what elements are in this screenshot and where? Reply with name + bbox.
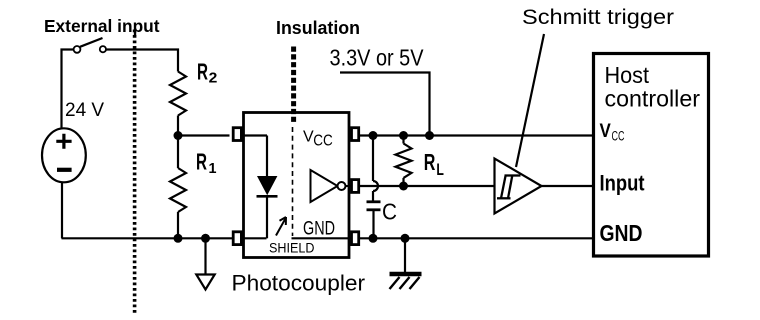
- svg-text:2: 2: [209, 69, 218, 86]
- svg-text:CC: CC: [612, 128, 625, 143]
- svg-text:R: R: [424, 149, 436, 175]
- svg-text:controller: controller: [605, 86, 701, 112]
- svg-text:24 V: 24 V: [65, 100, 104, 121]
- svg-text:Input: Input: [600, 171, 646, 196]
- svg-text:Photocoupler: Photocoupler: [232, 271, 366, 296]
- svg-text:L: L: [436, 160, 444, 179]
- svg-text:CC: CC: [313, 133, 333, 150]
- svg-text:R: R: [196, 149, 207, 175]
- svg-text:Insulation: Insulation: [276, 18, 360, 38]
- svg-text:R: R: [197, 59, 208, 85]
- svg-text:1: 1: [209, 160, 217, 177]
- svg-text:C: C: [382, 198, 397, 224]
- svg-text:V: V: [600, 121, 612, 142]
- svg-text:3.3V or 5V: 3.3V or 5V: [330, 45, 425, 71]
- svg-text:GND: GND: [600, 220, 643, 246]
- svg-text:External input: External input: [44, 16, 160, 36]
- svg-text:GND: GND: [303, 219, 335, 240]
- svg-text:Host: Host: [605, 62, 650, 88]
- svg-text:Schmitt trigger: Schmitt trigger: [522, 5, 674, 29]
- svg-text:SHIELD: SHIELD: [269, 240, 315, 256]
